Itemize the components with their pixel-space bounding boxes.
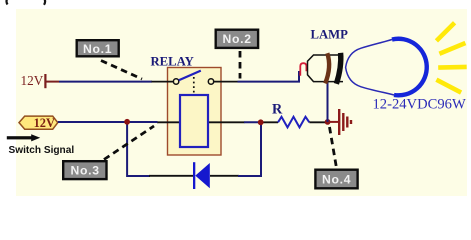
cathode bar <box>193 162 195 189</box>
lamp terminal curl <box>300 63 306 75</box>
node A junction dot <box>124 119 130 125</box>
svg-text:12V: 12V <box>34 116 55 130</box>
resistor pin right <box>309 121 327 123</box>
svg-text:12-24VDC96W: 12-24VDC96W <box>373 97 466 113</box>
callout No.3 <box>63 126 154 179</box>
svg-text:RELAY: RELAY <box>151 54 194 68</box>
resistor R <box>261 102 328 128</box>
lamp DS1 <box>300 23 466 113</box>
switch signal arrow <box>7 134 40 141</box>
glass envelope thick arc <box>392 39 427 96</box>
svg-text:No.4: No.4 <box>322 172 351 186</box>
light ray 1 <box>436 23 454 41</box>
light ray 4 <box>436 80 461 93</box>
schematic sheet <box>16 9 467 196</box>
node B junction dot <box>258 119 264 125</box>
light ray 3 <box>438 65 467 70</box>
socket outline <box>308 55 344 82</box>
relay U1 <box>151 54 245 155</box>
actuator dotted link <box>193 77 195 93</box>
wire node A down (left leg of diode loop) <box>127 122 150 176</box>
wire lamp to node C <box>327 81 329 122</box>
switch arm <box>179 71 201 81</box>
coil pin left <box>157 121 180 123</box>
contact circle right <box>208 79 213 84</box>
relay body <box>168 68 222 156</box>
wire hexagon to coil <box>58 121 158 123</box>
socket thread black arc <box>336 53 340 84</box>
socket thread brown arc <box>325 53 329 83</box>
anode triangle <box>195 163 210 188</box>
power port 12V hexagon (switch signal input) <box>19 116 58 130</box>
svg-text:No.3: No.3 <box>71 164 100 178</box>
power port 12V (top left) <box>21 73 60 88</box>
caption "(b)" clipped at top <box>7 0 46 5</box>
svg-text:No.1: No.1 <box>83 42 112 56</box>
ground <box>328 109 351 135</box>
diode D1 <box>149 162 239 189</box>
glass envelope thin outline <box>346 40 394 96</box>
diode pin left <box>149 175 193 177</box>
node C junction dot <box>325 119 331 125</box>
light ray 2 <box>439 43 465 54</box>
pin (contact left) <box>152 81 174 83</box>
resistor zigzag <box>278 117 309 128</box>
diode pin right <box>210 175 239 177</box>
svg-text:12V: 12V <box>21 73 44 88</box>
callout No.2 <box>216 30 258 79</box>
coil <box>180 95 208 147</box>
coil pin right <box>208 121 245 123</box>
callout No.1 <box>77 40 142 79</box>
wire coil to resistor node <box>244 121 261 123</box>
resistor pin left <box>261 121 279 123</box>
pin (contact right) <box>214 81 238 83</box>
wire 12V to relay pin <box>59 81 152 83</box>
svg-text:No.2: No.2 <box>223 32 252 46</box>
svg-text:Switch Signal: Switch Signal <box>9 145 75 156</box>
wire diode to node B (right leg of loop) <box>238 122 261 176</box>
callout No.4 <box>315 127 357 188</box>
contact circle left <box>173 79 178 84</box>
svg-text:LAMP: LAMP <box>311 28 349 42</box>
wire relay to lamp <box>238 71 300 82</box>
svg-text:R: R <box>272 102 283 118</box>
